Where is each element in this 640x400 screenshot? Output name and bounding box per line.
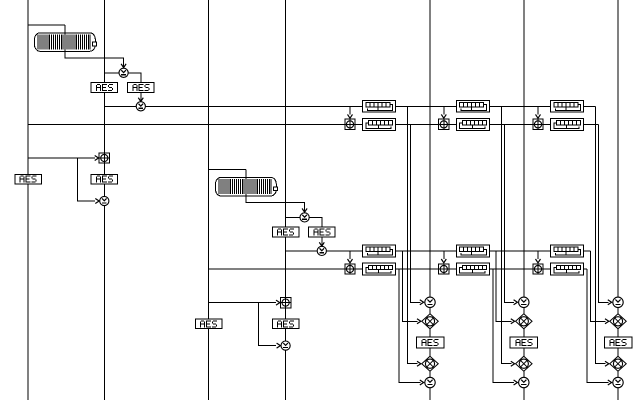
arrow into otimes M21	[511, 319, 515, 324]
arrow into xor X1c	[95, 199, 99, 204]
wire feed B2 (bus S2 to xor T21)	[504, 124, 514, 302]
wire K4 to xor X2a	[286, 216, 300, 218]
wire feed B3 (bus S2 to xor T31)	[599, 124, 609, 302]
op-amp AES R2s (on right rail)	[272, 319, 299, 329]
register REG3b top	[551, 245, 584, 257]
otimes M11	[422, 314, 439, 329]
op-amp AES L1 (on rail)	[91, 83, 118, 93]
otimes M31	[610, 314, 627, 329]
coil LFSR2	[216, 177, 278, 196]
wire K2 to xor X1b	[104, 105, 136, 107]
xor X1a	[119, 68, 128, 77]
wire bus S1	[145, 105, 595, 107]
arrow into xor T32	[608, 380, 612, 385]
arrow into otimes M32	[605, 361, 609, 366]
register REG3a top	[551, 100, 584, 112]
arrow into otimes M12	[417, 361, 421, 366]
wire branch down to xor X1c	[78, 158, 95, 201]
wire feed A1 (bus S1 to otimes M12)	[408, 106, 418, 363]
oplus G1b	[345, 264, 355, 274]
coil LFSR1	[35, 33, 97, 52]
oplus P2	[280, 297, 290, 307]
wire through coil 1 down to elbow	[65, 25, 124, 67]
arrow into otimes M31	[605, 319, 609, 324]
otimes M12	[422, 356, 439, 371]
wire rail K2	[103, 0, 105, 400]
arrow into xor T31	[608, 300, 612, 305]
op-amp AES L1s (on left rail)	[15, 174, 42, 184]
wire feed C2 (bus S3 to otimes M21)	[496, 251, 511, 321]
wire tap K3 to oplus P2	[209, 302, 277, 304]
wire arrow drop bus to oplus G2b	[443, 251, 445, 259]
register REG2a bottom	[457, 119, 490, 131]
arrow into xor X2c	[277, 343, 281, 348]
wire tap from K3 to coil 2	[209, 168, 246, 170]
oplus G2b	[439, 264, 449, 274]
arrow into otimes M11	[417, 319, 421, 324]
arrow into xor T12	[420, 380, 424, 385]
xor T11	[425, 297, 435, 307]
arrow into oplus G1a	[348, 114, 353, 118]
arrow into xor X2b	[319, 242, 324, 246]
arrow into oplus P2	[276, 300, 280, 305]
xor T21	[519, 297, 529, 307]
op-amp AES R1	[128, 83, 155, 93]
arrow into xor X1a	[121, 64, 126, 68]
xor T22	[519, 377, 529, 387]
wire feed D3 (bus S4 to xor T32)	[587, 269, 608, 383]
wire branch down to xor X2c	[259, 303, 277, 346]
oplus G3a	[533, 119, 543, 129]
register REG1a top	[363, 100, 396, 112]
wire arrow drop bus to oplus G2a	[443, 106, 445, 114]
xor X1c	[100, 196, 109, 205]
otimes M22	[516, 356, 533, 371]
wire K4 to xor X2b	[286, 250, 318, 252]
wire K2 to xor X1a	[104, 72, 119, 74]
wire feed A3 (bus S1 to otimes M32)	[596, 106, 606, 363]
wire xor X2a to AES R2	[309, 217, 322, 227]
arrow into oplus P1	[95, 156, 99, 161]
wire bus S4	[209, 268, 588, 270]
wire rail K1	[27, 0, 29, 400]
register REG1b top	[363, 245, 396, 257]
register REG2a top	[457, 100, 490, 112]
op-amp AES R1s (on right rail)	[91, 174, 118, 184]
xor T31	[613, 297, 623, 307]
wire arrow drop bus to oplus G1a	[349, 106, 351, 114]
wire rail D1	[429, 0, 431, 400]
oplus P1	[99, 153, 109, 163]
wire rail K4	[285, 0, 287, 400]
wire rail D2	[523, 0, 525, 400]
wire feed C1 (bus S3 to otimes M11)	[402, 251, 417, 321]
register REG1b bottom	[363, 263, 396, 275]
wire arrow drop bus to oplus G1b	[349, 251, 351, 259]
register REG2b top	[457, 245, 490, 257]
op-amp AES C3	[604, 337, 632, 348]
wire AES R1 down	[140, 92, 142, 100]
wire xor X1a to AES R1	[128, 73, 141, 83]
xor X2b	[317, 246, 326, 255]
arrow into xor X1b	[138, 98, 143, 102]
wire rail K3	[208, 0, 210, 400]
op-amp AES L2s (on left rail)	[195, 319, 222, 329]
op-amp AES C1	[416, 337, 444, 348]
xor T12	[425, 377, 435, 387]
oplus G2a	[439, 119, 449, 129]
wire feed A2 (bus S1 to otimes M22)	[501, 106, 511, 363]
wire arrow drop bus to oplus G3a	[537, 106, 539, 114]
otimes M21	[516, 314, 533, 329]
arrow into otimes M22	[511, 361, 515, 366]
op-amp AES C2	[510, 337, 538, 348]
xor X1b	[136, 102, 145, 111]
wire tap K1 to oplus P1	[28, 157, 95, 159]
oplus G1a	[345, 119, 355, 129]
register REG2b bottom	[457, 263, 490, 275]
xor T32	[613, 377, 623, 387]
arrow into xor T22	[514, 380, 518, 385]
wire feed D1 (bus S4 to xor T12)	[399, 269, 420, 383]
arrow into oplus G1b	[348, 259, 353, 263]
wire through coil 2 down to elbow	[246, 169, 305, 211]
arrow into oplus G3a	[536, 114, 541, 118]
wire bus S2	[28, 123, 599, 125]
wire bus S3	[326, 250, 590, 252]
arrow into xor T21	[514, 300, 518, 305]
op-amp AES R2	[309, 227, 336, 237]
otimes M32	[610, 356, 627, 371]
arrow into xor T11	[420, 300, 424, 305]
op-amp AES L2 (on rail)	[272, 227, 299, 237]
wire rail D3	[617, 0, 619, 400]
oplus G3b	[533, 264, 543, 274]
arrow into xor X2a	[302, 208, 307, 212]
arrow into oplus G3b	[536, 259, 541, 263]
register REG3b bottom	[551, 263, 584, 275]
arrow into oplus G2a	[441, 114, 446, 118]
register REG3a bottom	[551, 119, 584, 131]
wire arrow drop bus to oplus G3b	[537, 251, 539, 259]
wire feed C3 (bus S3 to otimes M31)	[590, 251, 605, 321]
xor X2c	[281, 341, 290, 350]
wire feed B1 (bus S2 to xor T11)	[411, 124, 421, 302]
arrow into oplus G2b	[441, 259, 446, 263]
wire tap from K1 to coil 1	[28, 24, 65, 26]
register REG1a bottom	[363, 119, 396, 131]
wire feed D2 (bus S4 to xor T22)	[493, 269, 514, 383]
xor X2a	[300, 213, 309, 222]
wire AES R2 down	[321, 237, 323, 245]
